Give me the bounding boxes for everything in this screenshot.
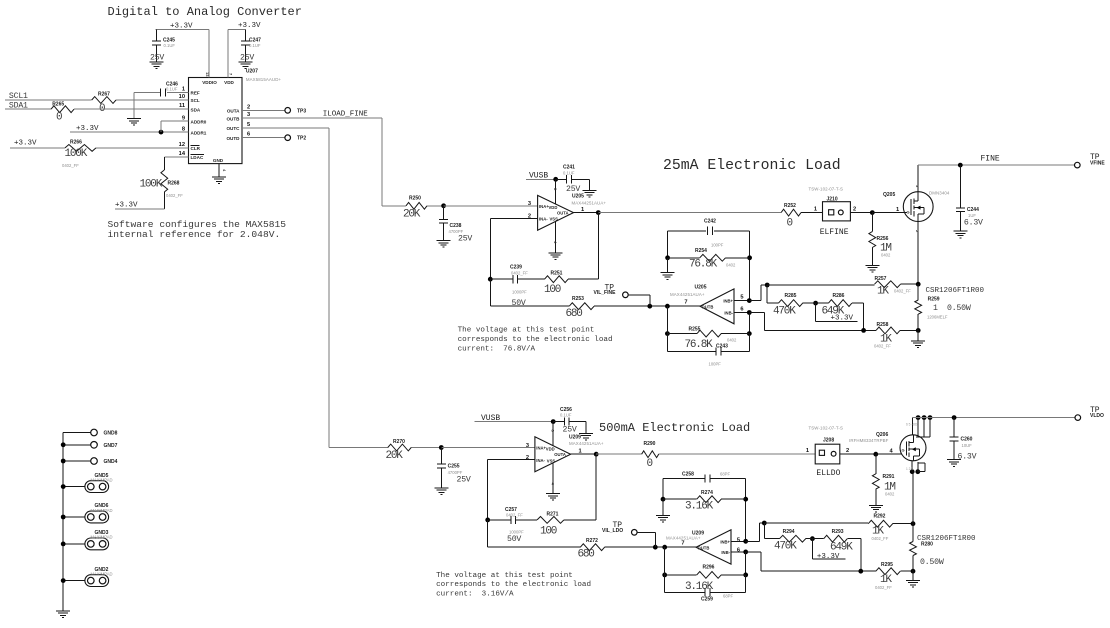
svg-text:3: 3 [526, 443, 529, 449]
svg-text:R251: R251 [551, 271, 563, 277]
svg-text:25V: 25V [150, 54, 164, 63]
svg-text:100K: 100K [140, 179, 163, 191]
svg-text:1000PF: 1000PF [509, 530, 524, 535]
svg-text:R280: R280 [921, 542, 933, 548]
svg-text:6: 6 [247, 132, 250, 138]
svg-text:OUTB: OUTB [702, 304, 714, 309]
svg-text:MAX44251AUA+: MAX44251AUA+ [569, 441, 604, 446]
svg-text:VDD: VDD [224, 80, 234, 85]
svg-text:R272: R272 [586, 538, 598, 544]
svg-text:14: 14 [179, 151, 186, 157]
svg-text:MAX5815AAUD+: MAX5815AAUD+ [246, 77, 282, 82]
svg-text:G: G [907, 210, 910, 215]
svg-text:0402_FF: 0402_FF [166, 193, 183, 198]
svg-text:SDA: SDA [191, 107, 201, 112]
svg-text:J208: J208 [823, 438, 834, 444]
svg-text:C255: C255 [448, 463, 460, 469]
svg-text:R255: R255 [689, 326, 701, 332]
svg-text:TSW-102-07-T-S: TSW-102-07-T-S [809, 426, 844, 431]
svg-text:2: 2 [846, 448, 849, 454]
svg-text:100PF: 100PF [709, 362, 722, 367]
svg-text:OUTB: OUTB [226, 116, 240, 121]
svg-text:1: 1 [896, 207, 899, 213]
svg-text:VFINE: VFINE [1090, 161, 1105, 167]
svg-text:0402_FF: 0402_FF [874, 344, 891, 349]
svg-text:Q205: Q205 [883, 192, 895, 198]
svg-text:50V: 50V [507, 535, 521, 544]
svg-text:INB-: INB- [724, 310, 733, 315]
svg-text:U209: U209 [569, 434, 581, 440]
svg-text:0402: 0402 [881, 253, 891, 258]
svg-text:25V: 25V [566, 185, 580, 194]
svg-text:corresponds to the electronic: corresponds to the electronic load [436, 581, 591, 589]
svg-text:ILOAD_FINE: ILOAD_FINE [323, 111, 369, 119]
svg-text:10UF: 10UF [962, 443, 973, 448]
svg-text:76.8K: 76.8K [689, 259, 718, 271]
svg-text:+3.3V: +3.3V [238, 22, 261, 30]
svg-text:0.1UF: 0.1UF [249, 43, 261, 48]
svg-text:+3.3V: +3.3V [831, 314, 854, 322]
svg-text:10: 10 [179, 94, 185, 100]
svg-text:500mA Electronic Load: 500mA Electronic Load [599, 421, 750, 435]
svg-text:4700PF: 4700PF [448, 470, 463, 475]
svg-text:1206MELF: 1206MELF [927, 314, 948, 319]
svg-text:1 2 3: 1 2 3 [906, 467, 913, 471]
svg-text:ADDR0: ADDR0 [191, 119, 207, 124]
svg-text:1: 1 [806, 448, 809, 454]
svg-text:1: 1 [182, 86, 185, 92]
svg-text:5: 5 [737, 538, 740, 544]
svg-text:The voltage at this test point: The voltage at this test point [436, 572, 573, 580]
svg-text:FINE: FINE [981, 155, 1000, 164]
svg-text:25V: 25V [457, 476, 471, 485]
svg-text:C238: C238 [450, 223, 462, 229]
svg-text:LDAC: LDAC [191, 155, 204, 160]
svg-text:0402_FF: 0402_FF [875, 585, 892, 590]
svg-text:VIL_FINE: VIL_FINE [594, 290, 617, 296]
svg-text:R267: R267 [98, 91, 110, 97]
svg-text:3.16K: 3.16K [685, 581, 714, 593]
svg-text:C260: C260 [961, 437, 973, 443]
svg-text:0.1UF: 0.1UF [164, 43, 176, 48]
svg-text:100PF: 100PF [711, 242, 724, 247]
svg-text:INB+: INB+ [720, 539, 730, 544]
svg-text:+3.3V: +3.3V [14, 139, 37, 147]
svg-text:VSS: VSS [550, 217, 559, 222]
svg-text:J210: J210 [827, 196, 838, 202]
svg-text:GND8: GND8 [104, 431, 118, 437]
svg-text:VDD: VDD [549, 205, 558, 210]
svg-text:R259: R259 [928, 296, 940, 302]
svg-text:470K: 470K [774, 541, 797, 553]
svg-text:ELFINE: ELFINE [820, 228, 849, 237]
svg-text:25V: 25V [458, 235, 472, 244]
svg-text:R291: R291 [883, 474, 895, 480]
svg-text:VLDO: VLDO [1090, 413, 1104, 419]
svg-text:R271: R271 [547, 512, 559, 518]
svg-text:13: 13 [205, 72, 210, 77]
svg-text:U205: U205 [695, 285, 707, 291]
svg-text:0402_FF: 0402_FF [62, 163, 79, 168]
svg-text:R253: R253 [572, 296, 584, 302]
svg-text:R286: R286 [833, 293, 845, 299]
svg-text:ADDR1: ADDR1 [191, 130, 207, 135]
svg-text:R268: R268 [168, 181, 180, 187]
svg-text:GND7: GND7 [104, 443, 118, 449]
svg-text:76.8K: 76.8K [685, 339, 714, 351]
svg-text:0402_FF: 0402_FF [894, 289, 911, 294]
svg-text:0402: 0402 [727, 338, 737, 343]
svg-text:VSS: VSS [547, 458, 556, 463]
svg-text:0: 0 [787, 217, 793, 229]
svg-text:C258: C258 [682, 471, 694, 477]
svg-text:R293: R293 [832, 529, 844, 535]
svg-text:MAXIMPAD: MAXIMPAD [90, 535, 112, 540]
svg-text:OUTD: OUTD [226, 136, 240, 141]
svg-text:MAXIMPAD: MAXIMPAD [90, 477, 112, 482]
svg-text:U207: U207 [246, 69, 258, 75]
svg-text:R258: R258 [877, 322, 889, 328]
svg-text:internal reference for 2.048V.: internal reference for 2.048V. [108, 229, 281, 240]
svg-text:0402: 0402 [885, 491, 895, 496]
svg-text:470K: 470K [773, 305, 796, 317]
svg-text:2: 2 [247, 104, 250, 110]
svg-text:6: 6 [737, 548, 740, 554]
svg-text:0.1UF: 0.1UF [166, 86, 178, 91]
svg-text:6: 6 [740, 307, 743, 313]
svg-text:INB+: INB+ [723, 299, 733, 304]
svg-text:5: 5 [740, 295, 743, 301]
svg-text:GND4: GND4 [104, 459, 118, 465]
svg-text:IRFHM8334TRPBF: IRFHM8334TRPBF [849, 438, 889, 443]
svg-text:2: 2 [853, 207, 856, 213]
svg-text:0402: 0402 [726, 262, 736, 267]
svg-text:MAX44251AUA+: MAX44251AUA+ [670, 292, 705, 297]
svg-text:MAX44251AUA+: MAX44251AUA+ [572, 201, 607, 206]
svg-text:MAXIMPAD: MAXIMPAD [90, 571, 112, 576]
svg-text:R257: R257 [875, 276, 887, 282]
svg-text:TP2: TP2 [297, 136, 306, 142]
svg-text:6.3V: 6.3V [964, 219, 983, 228]
svg-text:6 5 ~8D: 6 5 ~8D [906, 423, 918, 427]
svg-text:The voltage at this test point: The voltage at this test point [458, 327, 595, 335]
svg-text:VDDIO: VDDIO [202, 80, 217, 85]
svg-text:9: 9 [182, 115, 185, 121]
svg-text:R274: R274 [701, 490, 713, 496]
svg-text:649K: 649K [830, 542, 853, 554]
svg-text:100: 100 [540, 525, 557, 537]
svg-text:R292: R292 [874, 514, 886, 520]
svg-text:0.50W: 0.50W [920, 558, 944, 567]
svg-text:TP3: TP3 [297, 108, 306, 114]
svg-text:INB-: INB- [721, 550, 730, 555]
svg-text:R265: R265 [52, 101, 64, 107]
svg-text:CSR1206FT1R00: CSR1206FT1R00 [926, 287, 985, 295]
svg-text:5: 5 [247, 122, 250, 128]
svg-text:MAXIMPAD: MAXIMPAD [90, 508, 112, 513]
svg-text:VIL_LDO: VIL_LDO [602, 528, 623, 534]
svg-text:corresponds to the electronic: corresponds to the electronic load [458, 336, 613, 344]
svg-text:1: 1 [814, 207, 817, 213]
svg-text:0.50W: 0.50W [947, 304, 971, 313]
svg-text:0: 0 [56, 112, 62, 124]
svg-text:3: 3 [528, 201, 531, 207]
svg-text:R254: R254 [695, 248, 707, 254]
svg-text:0402_FF: 0402_FF [872, 536, 889, 541]
svg-text:0402_FF: 0402_FF [506, 513, 523, 518]
svg-text:current: 76.8V/A: current: 76.8V/A [458, 346, 536, 354]
svg-text:1K: 1K [877, 285, 889, 297]
svg-text:U205: U205 [572, 194, 584, 200]
svg-text:C243: C243 [716, 344, 728, 350]
svg-text:TSW-102-07-T-S: TSW-102-07-T-S [809, 186, 844, 191]
svg-text:R294: R294 [783, 529, 795, 535]
svg-text:C242: C242 [704, 219, 716, 225]
svg-text:1UF: 1UF [968, 213, 976, 218]
svg-text:25V: 25V [563, 426, 577, 435]
svg-text:R266: R266 [70, 139, 82, 145]
svg-text:680: 680 [566, 308, 583, 320]
svg-text:+3.3V: +3.3V [115, 202, 138, 210]
svg-text:OUTA: OUTA [227, 108, 240, 113]
svg-text:INA-: INA- [536, 458, 545, 463]
svg-text:6.3V: 6.3V [958, 453, 977, 462]
svg-text:current: 3.16V/A: current: 3.16V/A [436, 590, 514, 598]
svg-text:8: 8 [182, 126, 185, 132]
svg-text:INA-: INA- [539, 216, 548, 221]
svg-text:R285: R285 [785, 293, 797, 299]
svg-text:VDD: VDD [546, 446, 555, 451]
svg-text:0: 0 [647, 458, 653, 470]
svg-text:100K: 100K [65, 148, 88, 160]
svg-text:+3.3V: +3.3V [817, 553, 840, 561]
svg-text:OUTA: OUTA [557, 210, 569, 215]
svg-text:R270: R270 [393, 439, 405, 445]
svg-text:7: 7 [681, 540, 684, 546]
svg-text:3: 3 [247, 112, 250, 118]
svg-text:C259: C259 [701, 596, 713, 602]
svg-text:R295: R295 [881, 562, 893, 568]
svg-text:3.16K: 3.16K [685, 501, 714, 513]
svg-text:0.1UF: 0.1UF [563, 170, 575, 175]
svg-text:68PF: 68PF [720, 471, 730, 476]
svg-text:68PF: 68PF [723, 594, 733, 599]
svg-text:1: 1 [933, 304, 938, 313]
svg-text:G: G [902, 448, 905, 453]
svg-text:OUTA: OUTA [554, 452, 566, 457]
svg-text:DMN3404: DMN3404 [929, 191, 950, 196]
svg-text:0402_FF: 0402_FF [511, 271, 528, 276]
svg-text:REF: REF [191, 91, 200, 96]
svg-text:25mA Electronic Load: 25mA Electronic Load [663, 158, 841, 174]
svg-text:R290: R290 [644, 441, 656, 447]
svg-text:Digital to Analog Converter: Digital to Analog Converter [108, 5, 302, 19]
svg-text:R296: R296 [703, 564, 715, 570]
svg-text:4700PF: 4700PF [449, 229, 464, 234]
svg-text:R256: R256 [877, 236, 889, 242]
svg-text:20K: 20K [403, 209, 421, 221]
svg-text:11: 11 [179, 103, 185, 109]
svg-text:CLR: CLR [191, 146, 201, 151]
svg-text:0.1UF: 0.1UF [560, 413, 572, 418]
svg-text:OUTB: OUTB [698, 545, 710, 550]
svg-text:GND: GND [213, 158, 224, 163]
svg-text:20K: 20K [386, 450, 404, 462]
svg-text:ELLDO: ELLDO [816, 469, 840, 478]
svg-text:OUTC: OUTC [226, 126, 240, 131]
svg-text:R252: R252 [784, 203, 796, 209]
svg-text:680: 680 [578, 549, 595, 561]
svg-text:R250: R250 [409, 195, 421, 201]
svg-text:12: 12 [179, 142, 185, 148]
svg-text:2: 2 [526, 455, 529, 461]
svg-text:1000PF: 1000PF [512, 289, 527, 294]
svg-text:1: 1 [581, 207, 584, 213]
svg-text:25V: 25V [240, 54, 254, 63]
svg-text:100: 100 [544, 284, 561, 296]
svg-text:7: 7 [684, 299, 687, 305]
svg-text:SCL: SCL [191, 98, 200, 103]
